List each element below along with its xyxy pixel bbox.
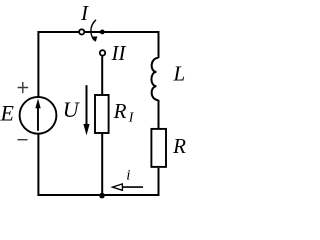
plus sign of source E (18, 82, 29, 93)
svg-text:I: I (128, 111, 135, 126)
resistor R (rectangle) (151, 129, 166, 167)
switch terminal I (open circle) (79, 29, 84, 34)
switch terminal II (open circle) (100, 50, 105, 55)
wire: middle branch from terminal II to resistor R1 (101, 56, 103, 94)
svg-text:U: U (63, 97, 81, 122)
current arrow i (open head, pointing left) (123, 186, 144, 188)
inductor L (coil) (151, 58, 158, 100)
wire: left branch bottom segment (38, 134, 102, 195)
switch pivot junction dot (100, 30, 105, 35)
E internal arrow (emf direction, up) (37, 106, 39, 131)
wire: middle branch from R1 to bottom node (101, 134, 103, 196)
svg-text:I: I (80, 1, 89, 25)
svg-text:i: i (126, 167, 130, 183)
wire: switch arm from terminal I to pivot (85, 31, 102, 33)
minus sign of source E (18, 139, 28, 141)
svg-text:R: R (113, 99, 127, 123)
bottom junction node dot (99, 193, 105, 199)
svg-text:II: II (111, 41, 127, 65)
voltage source E (circle) (20, 97, 57, 134)
wire: right branch bottom segment (102, 168, 159, 195)
wire: between coil and resistor R (158, 100, 160, 128)
voltage arrow U (down) (86, 85, 88, 125)
wire: left branch top segment (38, 32, 78, 97)
svg-text:R: R (172, 134, 186, 158)
svg-text:L: L (172, 62, 185, 86)
switch motion arc arrow (91, 20, 96, 41)
resistor R1 (rectangle) (95, 95, 109, 133)
wire: top right segment from switch pivot to right corner (102, 32, 158, 58)
svg-text:E: E (0, 100, 14, 125)
